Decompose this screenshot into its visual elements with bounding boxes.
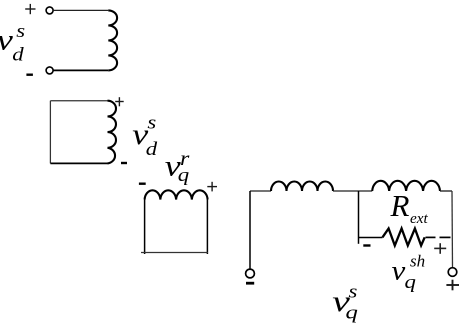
svg-text:s: s — [349, 280, 358, 302]
svg-text:s: s — [16, 20, 25, 42]
terminal circle left — [246, 269, 255, 278]
svg-text:q: q — [178, 164, 189, 186]
terminal circle top-left — [46, 7, 53, 14]
inductor coil L1 (vertical, bumps right) — [108, 10, 117, 70]
node + (top terminal plus sign) — [25, 4, 35, 14]
svg-text:q: q — [346, 301, 358, 323]
wire right vertical to terminal — [451, 191, 454, 268]
label v_d^s (winding 1) — [0, 20, 25, 65]
node - (bottom terminal minus sign) — [26, 73, 33, 75]
wire top — [50, 100, 107, 102]
svg-text:ext: ext — [410, 210, 428, 227]
terminal circle bottom-left — [46, 67, 53, 74]
svg-text:s: s — [147, 111, 156, 133]
wire middle junction vertical — [358, 191, 360, 244]
wire top of winding 1 — [53, 9, 108, 11]
node - (winding 3 left) — [139, 182, 146, 184]
wire left vertical — [49, 101, 51, 164]
node + (right terminal) — [446, 280, 459, 291]
node - (resistor left) — [363, 244, 370, 246]
node - (winding 2) — [121, 162, 127, 164]
inductor coil L3 (horizontal, bumps up) — [145, 190, 208, 199]
label v_d^s (winding 2) — [132, 111, 158, 159]
wire to resistor — [359, 237, 383, 239]
wire top rail middle segment — [333, 190, 372, 192]
svg-text:sh: sh — [410, 252, 425, 271]
label v_q^r (winding 3) — [165, 147, 190, 185]
node + (resistor right) — [434, 243, 446, 254]
terminal circle right — [448, 268, 457, 277]
inductor coil L4 (horizontal, bumps up) — [271, 182, 333, 192]
node + (winding 2) — [115, 97, 124, 106]
wire top rail right segment — [440, 190, 452, 192]
wire bottom of winding 1 — [53, 69, 108, 71]
resistor R_ext zigzag — [383, 229, 425, 246]
svg-text:q: q — [405, 271, 416, 293]
inductor coil L2 (vertical, bumps right) — [108, 101, 117, 164]
node - (left terminal) — [246, 282, 254, 285]
svg-text:v: v — [392, 256, 406, 286]
wire right vertical — [206, 200, 208, 255]
wire bottom — [50, 162, 107, 164]
svg-text:d: d — [146, 138, 158, 160]
wire left vertical to terminal — [249, 191, 251, 269]
wire bottom — [141, 252, 208, 254]
label v_q^s — [332, 280, 358, 323]
svg-text:R: R — [390, 188, 410, 223]
wire left vertical — [144, 200, 146, 255]
wire top rail left segment — [250, 190, 271, 192]
inductor coil L5 (horizontal, bumps up) — [372, 181, 440, 191]
label R_ext — [390, 188, 429, 227]
label v_q^sh — [392, 252, 426, 293]
node + (winding 3 right) — [207, 182, 217, 192]
svg-text:d: d — [12, 43, 24, 65]
wire dashed after resistor — [426, 236, 451, 238]
